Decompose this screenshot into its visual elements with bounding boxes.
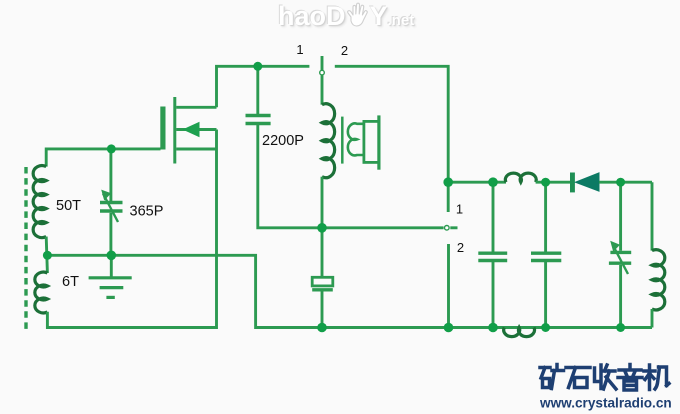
transformer T1 secondary bbox=[348, 123, 365, 155]
capacitor VC2 arrowhead bbox=[610, 241, 620, 252]
junction node C4 bottom bbox=[541, 323, 550, 332]
transistor Q1 arrow bbox=[183, 122, 200, 137]
inductor L4 bottom choke bbox=[504, 328, 535, 337]
junction node tank tap bbox=[43, 251, 52, 260]
capacitor C1 bottom lead / switch pole wire bbox=[258, 125, 444, 228]
inductor L5 bbox=[652, 250, 665, 310]
speaker SP1 bbox=[364, 121, 379, 162]
capacitor C4 plates bbox=[531, 251, 561, 254]
switch S1a blade bbox=[321, 56, 324, 105]
junction node bottom rail switch bbox=[444, 323, 454, 333]
site logo kuang shi shou yin ji bbox=[540, 365, 669, 391]
junction node gate/365P bbox=[107, 144, 116, 153]
capacitor C2 box bbox=[312, 277, 333, 286]
capacitor VC1 arrow bbox=[103, 194, 118, 223]
junction node C3 top bbox=[488, 177, 498, 187]
wire primary bottom bbox=[321, 177, 324, 228]
junction node C2 bottom rail bbox=[317, 323, 327, 333]
capacitor VC2 leads bbox=[619, 182, 622, 251]
svg-text:2: 2 bbox=[341, 43, 348, 58]
transformer T1 primary bbox=[322, 104, 335, 178]
transistor Q1 gate bar bbox=[160, 107, 165, 150]
wire tank tap horizontal bbox=[47, 255, 652, 327]
wire L1 to junction bbox=[46, 237, 47, 273]
capacitor VC2 arrow bbox=[613, 245, 629, 275]
ground stub bbox=[110, 255, 113, 277]
svg-text:2: 2 bbox=[457, 240, 464, 255]
capacitor C1 plates bbox=[246, 114, 271, 117]
capacitor C1 2200P top lead bbox=[256, 66, 259, 114]
wire 6T bottom to mosfet source bbox=[47, 130, 216, 328]
inductor L1 50T bbox=[33, 166, 46, 238]
capacitor VC1 plates bbox=[100, 201, 123, 204]
junction node pole wire / primary bbox=[317, 223, 327, 233]
capacitor VC1 arrowhead bbox=[101, 190, 111, 201]
capacitor VC1 365P leads bbox=[109, 149, 112, 201]
wire top rail to diode bbox=[536, 181, 570, 184]
transistor Q1 source lead bbox=[176, 148, 216, 151]
wire to C2 bbox=[321, 228, 324, 276]
transistor Q1 drain lead bbox=[176, 106, 216, 109]
junction node VC2 bottom bbox=[616, 323, 625, 332]
capacitor C3 plates bbox=[478, 251, 507, 254]
svg-text:6T: 6T bbox=[62, 274, 79, 290]
wire right rail top bbox=[651, 182, 654, 250]
wire gate top-left bbox=[46, 149, 160, 167]
svg-text:50T: 50T bbox=[56, 198, 81, 214]
wire top rail right bbox=[448, 181, 506, 184]
svg-text:www.crystalradio.cn: www.crystalradio.cn bbox=[539, 395, 672, 410]
wire drain up bbox=[217, 66, 310, 107]
ground bbox=[89, 278, 132, 298]
capacitor C3 leads bbox=[492, 182, 495, 251]
wire switch pos2 top bbox=[335, 66, 448, 182]
watermark haoDIY.net logo bbox=[278, 1, 414, 32]
transistor Q1 body lead bbox=[176, 128, 216, 131]
svg-text:1: 1 bbox=[456, 202, 463, 217]
svg-text:2200P: 2200P bbox=[262, 133, 304, 149]
wire C2 bottom bbox=[321, 291, 324, 327]
transformer T1 core bbox=[341, 117, 344, 164]
inductor L2 6T bbox=[35, 272, 48, 313]
diode D1 bbox=[570, 173, 599, 193]
inductor L3 top choke bbox=[505, 173, 536, 182]
antenna rod dashed line bbox=[24, 167, 27, 333]
junction node top rail switch bbox=[443, 177, 453, 187]
capacitor VC2 plates bbox=[610, 251, 631, 254]
junction node C4 top bbox=[541, 178, 550, 187]
switch S1b blade bbox=[450, 226, 457, 229]
junction node C3 bottom bbox=[488, 323, 498, 333]
switch S2a contact 2 stub bbox=[447, 244, 450, 328]
switch S2a contact circle bbox=[445, 226, 450, 231]
capacitor C4 leads bbox=[544, 182, 547, 251]
wire right rail bottom bbox=[651, 309, 654, 328]
wire diode to corner bbox=[599, 181, 652, 184]
junction node 365P bottom bbox=[107, 251, 117, 261]
transistor Q1 channel bbox=[173, 97, 176, 164]
switch S1a contact circle bbox=[320, 70, 325, 75]
svg-text:365P: 365P bbox=[130, 204, 164, 220]
junction node VC2 top bbox=[616, 178, 625, 187]
svg-text:1: 1 bbox=[296, 42, 303, 57]
junction node drain / C1 bbox=[253, 62, 262, 71]
switch S2a contact 1 stub bbox=[447, 182, 450, 212]
